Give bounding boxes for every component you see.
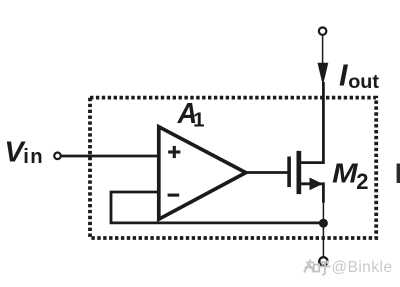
svg-text:2: 2 — [356, 169, 368, 194]
top terminal circle — [319, 27, 327, 34]
svg-text:M: M — [332, 158, 359, 189]
transistor M2 gate bar — [287, 157, 291, 188]
svg-text:1: 1 — [193, 109, 205, 132]
input terminal circle — [54, 153, 61, 160]
wire source — [299, 184, 323, 203]
wire bottom terminal lead — [322, 202, 324, 258]
transistor M2 source arrow — [310, 178, 323, 191]
cropped glyph at right edge — [397, 164, 400, 184]
plus input sign — [168, 146, 180, 158]
svg-text:out: out — [348, 71, 379, 93]
junction node dot — [319, 219, 328, 228]
bottom terminal circle — [319, 257, 327, 265]
dashed enclosure box — [90, 98, 376, 238]
wire top terminal lead — [322, 34, 324, 64]
op-amp A1 triangle — [159, 127, 246, 219]
wire Vin input — [61, 155, 160, 158]
svg-text:I: I — [339, 59, 348, 93]
svg-text:in: in — [23, 146, 44, 168]
Iout current arrow — [318, 63, 329, 86]
svg-text:@Binkle: @Binkle — [332, 259, 393, 276]
wire feedback loop — [111, 192, 323, 223]
minus input sign — [168, 194, 180, 197]
transistor M2 channel bar — [297, 151, 302, 194]
watermark zhihu glyphs — [304, 260, 331, 275]
wire drain — [299, 82, 323, 163]
wire op-amp output to gate — [245, 171, 288, 174]
